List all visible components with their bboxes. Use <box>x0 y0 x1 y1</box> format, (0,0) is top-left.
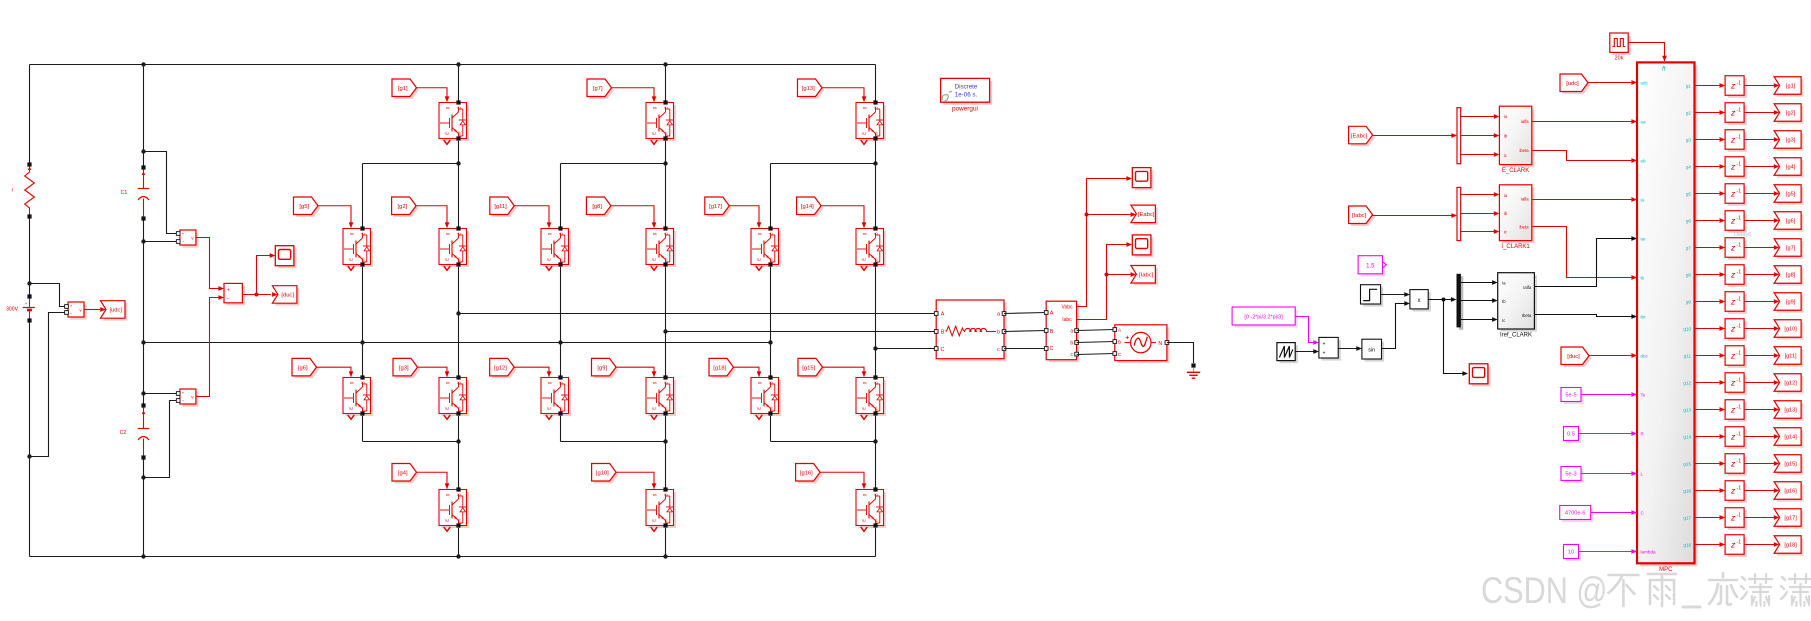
wire delay to goto g12 <box>1744 380 1779 385</box>
wire MPC g18 to delay <box>1695 542 1726 547</box>
wire ebeta to MPC <box>1532 151 1637 163</box>
svg-text:[g2]: [g2] <box>1786 111 1796 117</box>
svg-text:z: z <box>1730 431 1736 441</box>
svg-text:A: A <box>1050 311 1054 317</box>
svg-text:[g11]: [g11] <box>494 204 507 210</box>
wire MPC g9 to delay <box>1695 299 1726 304</box>
wire C1 vmeas to sum <box>196 238 224 291</box>
svg-text:z: z <box>1730 242 1736 252</box>
goto tag [g11] <box>1774 347 1803 367</box>
svg-text:[g12]: [g12] <box>1784 381 1797 387</box>
wire capacitor rail <box>143 65 145 557</box>
sum block ref <box>1319 337 1341 360</box>
svg-text:C1: C1 <box>121 190 128 196</box>
wire Iabc to demux <box>1373 213 1457 218</box>
from tag [g7] <box>587 79 614 99</box>
wire Eabc to demux <box>1373 133 1457 138</box>
goto tag [g3] <box>1774 131 1803 151</box>
svg-text:[g13]: [g13] <box>802 86 815 92</box>
svg-text:-1: -1 <box>1737 404 1742 410</box>
IGBT g9 <box>646 375 676 419</box>
svg-text:ib: ib <box>1641 276 1645 281</box>
wire MPC g15 to delay <box>1695 461 1726 466</box>
svg-text:ft: ft <box>1662 66 1666 73</box>
wire delay to goto g14 <box>1744 434 1779 439</box>
wire pulse to MPC <box>1628 43 1667 62</box>
wire step to product <box>1381 292 1410 297</box>
unit delay Z-1 14 <box>1725 427 1747 449</box>
wire top DC bus <box>30 64 876 66</box>
svg-text:eb: eb <box>1641 159 1647 164</box>
IGBT g7 <box>646 100 676 144</box>
wire VI to source c <box>1077 354 1115 355</box>
svg-text:C: C <box>941 347 945 353</box>
IGBT g10 <box>646 487 676 531</box>
goto tag [g6] <box>1774 212 1803 232</box>
unit delay Z-1 6 <box>1725 211 1747 233</box>
unit delay Z-1 10 <box>1725 319 1747 341</box>
voltage measurement C1 <box>176 230 198 248</box>
svg-text:[g15]: [g15] <box>802 365 815 371</box>
IGBT g8 <box>646 226 676 270</box>
svg-text:[g17]: [g17] <box>1784 516 1797 522</box>
svg-text:iar: iar <box>1641 237 1647 242</box>
constant 0.5 <box>1564 427 1582 444</box>
svg-text:g1: g1 <box>1686 84 1692 89</box>
wire phase C clamp junction lower <box>771 414 876 442</box>
unit delay Z-1 7 <box>1725 238 1747 260</box>
wire gate g6 <box>317 367 354 377</box>
svg-text:-1: -1 <box>1737 323 1742 329</box>
subsystem I_CLARK1 <box>1499 185 1534 250</box>
svg-text:[g16]: [g16] <box>1784 489 1797 495</box>
svg-text:[g1]: [g1] <box>398 86 408 92</box>
svg-text:[0 -2*pi/3 2*pi/3]: [0 -2*pi/3 2*pi/3] <box>1244 315 1283 321</box>
wire MPC g5 to delay <box>1695 191 1726 196</box>
wire gate g5 <box>318 206 353 228</box>
svg-text:C: C <box>1050 346 1054 352</box>
wire delay to goto g6 <box>1744 218 1779 223</box>
wire phase C left leg <box>770 265 772 378</box>
wire MPC g14 to delay <box>1695 434 1726 439</box>
svg-text:[g10]: [g10] <box>596 470 609 476</box>
from tag [g5] <box>294 197 321 217</box>
goto tag [g9] <box>1774 293 1803 313</box>
IGBT g18 <box>751 375 781 419</box>
wire MPC g2 to delay <box>1695 110 1726 115</box>
wire MPC g4 to delay <box>1695 164 1726 169</box>
svg-text:−: − <box>227 297 230 303</box>
wire 5e-3 to MPC <box>1581 471 1637 476</box>
svg-text:−: − <box>182 398 185 403</box>
wire MPC g12 to delay <box>1695 380 1726 385</box>
wire gate g9 <box>616 367 656 377</box>
svg-text:+: + <box>25 302 28 307</box>
svg-text:z: z <box>1730 80 1736 90</box>
wire delay to goto g17 <box>1744 515 1779 520</box>
svg-text:[g8]: [g8] <box>592 204 602 210</box>
wire gate g14 <box>821 206 866 228</box>
from tag [duc] <box>1561 347 1591 367</box>
constant 1.5 <box>1358 256 1386 277</box>
svg-text:[g3]: [g3] <box>399 365 409 371</box>
svg-text:Vabc: Vabc <box>1061 304 1073 310</box>
junction dots left rail <box>27 281 31 458</box>
svg-text:−: − <box>182 239 185 244</box>
svg-text:10: 10 <box>1568 550 1574 556</box>
svg-text:duc: duc <box>1641 354 1649 359</box>
wire delay to goto g2 <box>1744 110 1779 115</box>
IGBT g3 <box>439 375 469 419</box>
MPC controller block <box>1637 62 1698 572</box>
step block <box>1361 285 1384 307</box>
svg-text:Ic: Ic <box>1502 318 1505 323</box>
svg-text:g5: g5 <box>1686 192 1692 197</box>
wire delay to goto g18 <box>1744 542 1779 547</box>
from tag [g14] <box>797 197 824 217</box>
goto tag [g18] <box>1774 536 1803 556</box>
wire phase B clamp junction upper <box>561 164 666 229</box>
subsystem Iref_CLARK <box>1498 273 1537 339</box>
svg-text:z: z <box>1730 404 1736 414</box>
svg-text:A: A <box>941 311 945 317</box>
IGBT g4 <box>439 487 469 531</box>
svg-text:g2: g2 <box>1686 111 1692 116</box>
wire Iref ialfa to MPC <box>1534 236 1637 286</box>
wire MPC g3 to delay <box>1695 137 1726 142</box>
ground <box>1187 363 1200 378</box>
wire gate g16 <box>820 472 866 489</box>
wire udc to MPC <box>1588 80 1637 85</box>
wire demux ref out 3 <box>1461 317 1498 322</box>
voltage measurement C2 <box>176 389 198 407</box>
svg-text:-1: -1 <box>1737 269 1742 275</box>
svg-text:[g13]: [g13] <box>1784 408 1797 414</box>
unit delay Z-1 2 <box>1725 103 1747 125</box>
svg-text:−: − <box>70 311 73 316</box>
sawtooth generator <box>1277 343 1298 364</box>
wire phase B main leg <box>665 65 667 557</box>
svg-text:[g15]: [g15] <box>1784 462 1797 468</box>
wire RLC to VI c <box>1004 348 1046 350</box>
demux black <box>1457 274 1464 330</box>
resistor r <box>12 162 35 218</box>
svg-text:Ts: Ts <box>1641 393 1646 398</box>
svg-text:Iabc: Iabc <box>1062 317 1072 323</box>
svg-text:[g3]: [g3] <box>1786 138 1796 144</box>
voltage measurement Udc <box>65 302 87 320</box>
svg-text:Ialfa: Ialfa <box>1523 285 1532 290</box>
wire sin to product <box>1382 301 1410 348</box>
goto tag [g1] <box>1774 77 1803 97</box>
wire 10 to MPC <box>1579 549 1638 554</box>
svg-text:[g18]: [g18] <box>713 365 726 371</box>
wire phase B left leg <box>560 265 562 378</box>
svg-text:powergui: powergui <box>952 105 978 112</box>
from tag [g2] <box>392 197 419 217</box>
wire source N to ground <box>1167 343 1194 364</box>
IGBT g2 <box>439 226 469 270</box>
svg-text:b: b <box>997 329 1000 335</box>
goto tag [duc] <box>272 286 299 306</box>
svg-text:b: b <box>1070 341 1073 347</box>
svg-text:g7: g7 <box>1686 246 1692 251</box>
from tag [Iabc] <box>1349 206 1375 226</box>
svg-text:[Eabc]: [Eabc] <box>1351 133 1368 139</box>
svg-text:z: z <box>1730 215 1736 225</box>
wire delay to goto g13 <box>1744 407 1779 412</box>
wire 0.5 to MPC <box>1579 431 1638 436</box>
svg-text:C: C <box>1118 352 1122 358</box>
wire delay to goto g4 <box>1744 164 1779 169</box>
goto tag [Eabc] <box>1131 205 1158 225</box>
svg-text:lambda: lambda <box>1641 550 1657 555</box>
svg-text:[g2]: [g2] <box>398 204 408 210</box>
wire phase A main leg <box>458 65 460 557</box>
svg-text:c: c <box>997 347 1000 353</box>
product block <box>1410 290 1431 312</box>
wire MPC g1 to delay <box>1695 83 1726 88</box>
svg-text:z: z <box>1730 134 1736 144</box>
svg-text:sin: sin <box>1368 347 1375 353</box>
wire MPC g16 to delay <box>1695 488 1726 493</box>
IGBT g13 <box>856 100 886 144</box>
svg-text:Discrete: Discrete <box>955 83 978 90</box>
wire gate g10 <box>616 472 656 489</box>
capacitor C2 <box>120 403 150 459</box>
wire C2 vmeas plus <box>144 393 178 395</box>
svg-text:z: z <box>1730 323 1736 333</box>
svg-text:[g12]: [g12] <box>494 365 507 371</box>
wire delay to goto g10 <box>1744 326 1779 331</box>
from tag [g17] <box>705 197 732 217</box>
wire demux ref out 2 <box>1461 298 1498 303</box>
wire sum to duc <box>242 253 277 297</box>
scope Iabc <box>1132 235 1153 258</box>
demux E <box>1457 108 1461 164</box>
goto tag [g7] <box>1774 239 1803 259</box>
svg-text:+: + <box>70 304 73 309</box>
wire ealfa to MPC <box>1532 119 1637 124</box>
svg-text:+: + <box>1322 341 1325 347</box>
wire gate g11 <box>514 206 551 228</box>
goto tag [g15] <box>1774 455 1803 475</box>
svg-text:20k: 20k <box>1615 56 1624 62</box>
svg-text:[udc]: [udc] <box>1566 81 1579 87</box>
svg-text:-1: -1 <box>1737 458 1742 464</box>
wire gate g18 <box>734 367 762 377</box>
unit delay Z-1 4 <box>1725 157 1747 179</box>
svg-text:L: L <box>1641 472 1644 477</box>
from tag [g10] <box>592 464 619 484</box>
wire MPC g6 to delay <box>1695 218 1726 223</box>
wire phase C main leg <box>875 65 877 557</box>
wire C1 vmeas minus <box>144 241 178 243</box>
svg-text:+: + <box>1322 350 1325 356</box>
wire MPC g17 to delay <box>1695 515 1726 520</box>
wire C2 vmeas minus <box>144 401 178 478</box>
constant 5e-5 <box>1561 388 1584 405</box>
IGBT g17 <box>751 226 781 270</box>
wire VI to source b <box>1077 342 1115 343</box>
wire MPC g11 to delay <box>1695 353 1726 358</box>
svg-text:B: B <box>1118 340 1121 346</box>
pulse generator 20k <box>1610 33 1631 62</box>
unit delay Z-1 16 <box>1725 481 1747 503</box>
svg-text:-1: -1 <box>1737 377 1742 383</box>
svg-text:udc: udc <box>1641 81 1649 86</box>
IGBT g15 <box>856 375 886 419</box>
from tag [g12] <box>490 358 517 378</box>
goto tag [g13] <box>1774 401 1803 421</box>
wire MPC g8 to delay <box>1695 272 1726 277</box>
unit delay Z-1 15 <box>1725 454 1747 476</box>
svg-text:-1: -1 <box>1737 242 1742 248</box>
svg-text:g17: g17 <box>1683 516 1691 521</box>
svg-text:g10: g10 <box>1683 327 1691 332</box>
svg-text:Iref_CLARK: Iref_CLARK <box>1500 333 1532 339</box>
svg-text:[g16]: [g16] <box>800 470 813 476</box>
svg-text:-1: -1 <box>1737 431 1742 437</box>
unit delay Z-1 5 <box>1725 184 1747 206</box>
svg-text:[g7]: [g7] <box>593 86 603 92</box>
svg-text:z: z <box>1730 377 1736 387</box>
from tag [g9] <box>592 358 619 378</box>
svg-text:g13: g13 <box>1683 408 1691 413</box>
IGBT g1 <box>439 100 469 144</box>
unit delay Z-1 8 <box>1725 265 1747 287</box>
from tag [g11] <box>490 197 517 217</box>
from tag [g3] <box>393 358 420 378</box>
svg-text:g12: g12 <box>1683 381 1691 386</box>
wire delay to goto g16 <box>1744 488 1779 493</box>
svg-text:[g14]: [g14] <box>801 204 814 210</box>
svg-text:g18: g18 <box>1683 543 1691 548</box>
goto tag [g14] <box>1774 428 1803 448</box>
svg-text:-1: -1 <box>1737 512 1742 518</box>
unit delay Z-1 12 <box>1725 373 1747 395</box>
wire battery vmeas minus <box>30 313 65 457</box>
wire phase C output <box>876 348 937 350</box>
svg-text:[g6]: [g6] <box>1786 219 1796 225</box>
wire 5e-5 to MPC <box>1581 392 1637 397</box>
from tag [g8] <box>586 197 613 217</box>
wire phase A clamp junction upper <box>363 164 459 229</box>
wire demux E out 1 <box>1461 114 1500 119</box>
wire phase A clamp junction lower <box>363 414 459 442</box>
wire gate g15 <box>823 367 867 377</box>
svg-text:z: z <box>1730 161 1736 171</box>
three-phase series RLC branch <box>934 300 1006 361</box>
wire demux I out 1 <box>1461 192 1500 197</box>
svg-text:z: z <box>1730 485 1736 495</box>
wire vmeas to udc goto <box>84 307 106 312</box>
wire delay to goto g9 <box>1744 299 1779 304</box>
svg-text:[Iabc]: [Iabc] <box>1352 213 1367 219</box>
IGBT g5 <box>343 226 373 270</box>
svg-text:z: z <box>1730 512 1736 522</box>
goto tag [g16] <box>1774 482 1803 502</box>
svg-text:z: z <box>1730 107 1736 117</box>
svg-text:N: N <box>1158 341 1162 347</box>
wire ibeta to MPC <box>1532 227 1637 280</box>
svg-text:g16: g16 <box>1683 489 1691 494</box>
svg-text:-1: -1 <box>1737 215 1742 221</box>
wire left rail <box>29 65 31 557</box>
wire demux E out 3 <box>1461 152 1500 157</box>
wire battery vmeas plus <box>30 284 65 307</box>
wire demux ref out 1 <box>1461 280 1498 285</box>
wire phase A output <box>459 313 937 315</box>
svg-text:[udc]: [udc] <box>109 308 122 314</box>
svg-text:g14: g14 <box>1683 435 1691 440</box>
svg-text:1.5: 1.5 <box>1366 263 1375 269</box>
svg-text:g8: g8 <box>1686 273 1692 278</box>
from tag [Eabc] <box>1349 126 1375 146</box>
wire 4700e-6 to MPC <box>1591 510 1637 515</box>
svg-text:[g4]: [g4] <box>1786 165 1796 171</box>
svg-text:[g10]: [g10] <box>1784 327 1797 333</box>
watermark CSDN <box>1481 570 1811 613</box>
svg-text:-1: -1 <box>1737 161 1742 167</box>
wire delay to goto g15 <box>1744 461 1779 466</box>
wire delay to goto g1 <box>1744 83 1779 88</box>
svg-text:[g7]: [g7] <box>1786 246 1796 252</box>
svg-text:5e-5: 5e-5 <box>1565 393 1576 399</box>
label Delay6 <box>1734 232 1751 238</box>
svg-text:ibeta: ibeta <box>1520 148 1530 153</box>
svg-text:[g18]: [g18] <box>1784 543 1797 549</box>
wire duc to MPC <box>1589 353 1637 358</box>
svg-text:ialfa: ialfa <box>1521 119 1529 124</box>
subsystem E_CLARK <box>1499 106 1534 174</box>
wire MPC g13 to delay <box>1695 407 1726 412</box>
powergui block <box>941 78 993 112</box>
from tag [g16] <box>796 464 823 484</box>
svg-text:1e-06 s.: 1e-06 s. <box>955 92 978 99</box>
wire delay to goto g11 <box>1744 353 1779 358</box>
wire phase B output <box>666 331 937 333</box>
svg-text:[g9]: [g9] <box>1786 300 1796 306</box>
sum block duc <box>224 283 245 305</box>
goto tag [g17] <box>1774 509 1803 529</box>
wire C2 vmeas to sum <box>196 295 224 396</box>
wire VI to source a <box>1077 330 1115 331</box>
svg-text:[duc]: [duc] <box>1567 354 1580 360</box>
wire Iref ibeta to MPC <box>1534 314 1637 319</box>
svg-text:[g5]: [g5] <box>1786 192 1796 198</box>
wire gate g12 <box>514 367 551 377</box>
wire MPC g10 to delay <box>1695 326 1726 331</box>
demux I <box>1457 187 1461 240</box>
svg-text:[g17]: [g17] <box>709 204 722 210</box>
svg-text:+: + <box>182 391 185 396</box>
goto tag [udc] <box>101 301 128 321</box>
wire phase C clamp junction upper <box>771 164 876 229</box>
unit delay Z-1 9 <box>1725 292 1747 314</box>
goto tag [g8] <box>1774 266 1803 286</box>
from tag [g1] <box>392 79 419 99</box>
svg-text:g11: g11 <box>1684 354 1692 359</box>
unit delay Z-1 3 <box>1725 130 1747 152</box>
svg-text:[Iabc]: [Iabc] <box>1139 272 1154 278</box>
from tag [g15] <box>798 358 825 378</box>
svg-text:[g11]: [g11] <box>1785 354 1797 360</box>
svg-text:Delay6: Delay6 <box>1734 232 1751 238</box>
from tag [g13] <box>798 79 825 99</box>
svg-text:E_CLARK: E_CLARK <box>1502 168 1529 174</box>
svg-text:Ibeta: Ibeta <box>1522 313 1532 318</box>
